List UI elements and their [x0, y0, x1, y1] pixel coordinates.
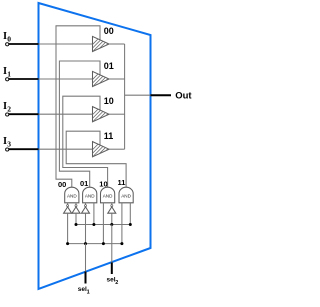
wire gate 01 right input [93, 203, 95, 225]
output bus vertical [124, 44, 126, 149]
wire gate 11 left input [121, 203, 123, 244]
out wire external [151, 94, 172, 96]
wire buffer 00 output [109, 43, 125, 45]
enable wire gate10 to buffer10 [63, 96, 108, 188]
svg-text:11: 11 [104, 131, 114, 141]
junction dot sel2 bus gate 11 [129, 223, 132, 226]
inverter gate 00 left input [64, 203, 72, 244]
svg-text:AND: AND [121, 193, 131, 198]
wire I0 inner [39, 43, 93, 45]
input I0 terminal [3, 31, 39, 46]
svg-text:11: 11 [118, 178, 126, 187]
svg-text:10: 10 [104, 96, 114, 106]
junction dot sel2 bus gate 00 [75, 223, 78, 226]
tri-state buffer 01 [84, 61, 117, 89]
wire I3 inner [39, 148, 93, 150]
enable wire gate00 to buffer00 [56, 26, 100, 188]
sel1 bus lower [68, 243, 122, 245]
svg-text:0: 0 [7, 34, 11, 43]
junction dot sel1 bus gate 00 [66, 242, 69, 245]
wire buffer 01 output [109, 78, 125, 80]
wire gate 11 right input [129, 203, 131, 225]
AND gate 00 [58, 180, 79, 203]
junction dot sel1 bus gate 11 [120, 242, 123, 245]
svg-text:Out: Out [175, 91, 192, 102]
junction dot sel2 bus gate 10 [110, 223, 113, 226]
inverter gate 10 right input [108, 203, 116, 225]
tri-state buffer 11 [84, 131, 117, 159]
svg-text:1: 1 [87, 289, 90, 295]
inverter gate 01 left input [82, 203, 90, 244]
out wire inner [125, 94, 151, 96]
svg-text:AND: AND [103, 193, 113, 198]
svg-text:3: 3 [7, 140, 11, 149]
svg-text:AND: AND [85, 193, 95, 198]
svg-text:2: 2 [7, 105, 11, 114]
svg-text:AND: AND [67, 193, 77, 198]
wire I2 inner [39, 113, 93, 115]
svg-text:1: 1 [7, 69, 11, 78]
svg-text:01: 01 [80, 179, 88, 188]
junction dot sel2 bus gate 01 [92, 223, 95, 226]
wire buffer 10 output [109, 113, 125, 115]
wire buffer 11 output [109, 148, 125, 150]
svg-text:00: 00 [58, 180, 66, 189]
enable wire gate01 to buffer01 [59, 61, 100, 188]
sel1 riser [85, 244, 87, 272]
svg-text:00: 00 [104, 26, 114, 36]
mux body trapezoid [39, 3, 151, 289]
svg-text:2: 2 [115, 280, 118, 286]
junction dot sel1 bus gate 10 [102, 242, 105, 245]
sel2 riser [111, 225, 113, 263]
tri-state buffer 10 [84, 96, 117, 124]
svg-text:01: 01 [104, 61, 114, 71]
AND gate 01 [80, 179, 97, 203]
inverter gate 00 right input [72, 203, 80, 225]
AND gate 11 [118, 178, 134, 203]
junction dot sel1 bus gate 01 [84, 242, 87, 245]
input I3 terminal [3, 136, 39, 151]
AND gate 10 [99, 179, 114, 203]
wire gate 10 left input [102, 203, 104, 244]
svg-text:10: 10 [99, 179, 107, 188]
tri-state buffer 00 [84, 26, 117, 54]
input I2 terminal [3, 101, 39, 116]
enable wire gate11 to buffer11 [66, 131, 126, 188]
input I1 terminal [3, 66, 39, 81]
wire I1 inner [39, 78, 93, 80]
sel2 bus upper [76, 224, 130, 226]
